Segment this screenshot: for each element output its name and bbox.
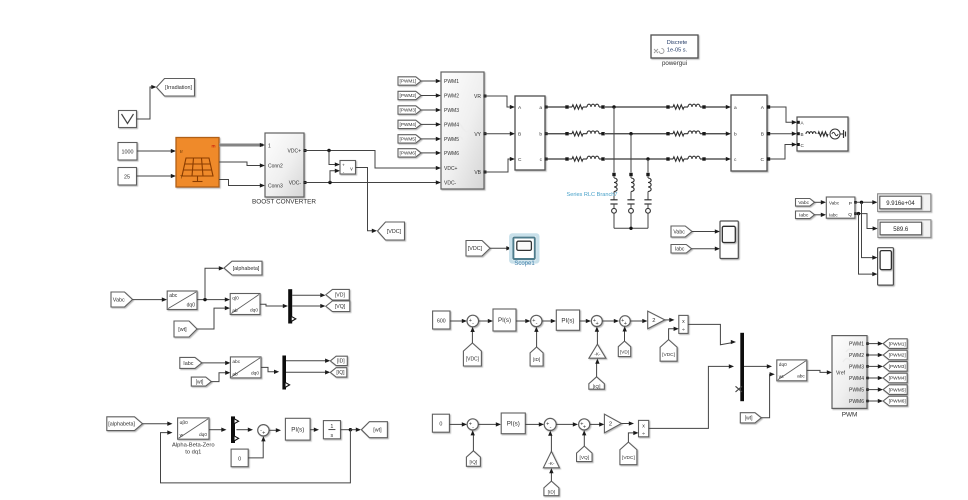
svg-text:÷: ÷ [682, 327, 685, 333]
svg-text:dq0: dq0 [251, 371, 259, 377]
svg-text:b: b [539, 132, 542, 138]
svg-text:PWM6: PWM6 [444, 151, 459, 157]
svg-text:PWM1: PWM1 [849, 342, 864, 348]
svg-text:PI(s): PI(s) [507, 421, 520, 428]
svg-text:[PWM5]: [PWM5] [889, 387, 906, 393]
svg-text:dq0: dq0 [779, 362, 787, 368]
svg-text:x: x [682, 319, 685, 325]
svg-text:-K-: -K- [594, 351, 601, 356]
svg-text:Scope1: Scope1 [514, 261, 535, 267]
svg-text:9.916e+04: 9.916e+04 [886, 201, 915, 207]
svg-text:+: + [583, 424, 586, 430]
svg-text:C: C [518, 157, 522, 163]
svg-text:1000: 1000 [122, 150, 134, 156]
svg-text:ab: ab [232, 371, 238, 377]
svg-text:÷: ÷ [642, 431, 645, 437]
svg-text:2: 2 [609, 422, 612, 428]
svg-text:1e-05 s.: 1e-05 s. [667, 48, 688, 54]
svg-text:PWM3: PWM3 [849, 364, 864, 370]
svg-text:PI(s): PI(s) [561, 317, 574, 324]
svg-text:[VDC]: [VDC] [622, 455, 635, 461]
svg-text:to dq1: to dq1 [185, 450, 201, 456]
svg-text:Iabc: Iabc [829, 213, 838, 218]
svg-text:wt: wt [779, 374, 784, 380]
svg-text:600: 600 [437, 319, 446, 325]
svg-text:[PWM2]: [PWM2] [400, 93, 417, 98]
svg-text:BOOST CONVERTER: BOOST CONVERTER [252, 199, 316, 206]
svg-text:powergui: powergui [662, 60, 687, 67]
svg-text:Iabc: Iabc [799, 213, 809, 219]
svg-text:[wt]: [wt] [178, 327, 187, 333]
svg-text:[PWM6]: [PWM6] [889, 399, 906, 405]
svg-text:-: - [550, 425, 552, 431]
svg-text:[PWM6]: [PWM6] [400, 151, 417, 156]
svg-text:[wt]: [wt] [196, 379, 204, 385]
svg-text:25: 25 [124, 175, 130, 181]
svg-text:0: 0 [238, 456, 241, 462]
svg-text:PWM: PWM [842, 412, 858, 419]
svg-text:Discrete: Discrete [667, 40, 688, 46]
svg-text:[VD]: [VD] [620, 349, 629, 354]
svg-text:b: b [734, 132, 737, 138]
svg-text:PI(s): PI(s) [291, 426, 304, 433]
svg-text:Series RLC Branch7: Series RLC Branch7 [567, 192, 618, 198]
svg-text:VDC+: VDC+ [444, 166, 458, 172]
svg-text:PWM4: PWM4 [849, 376, 864, 382]
svg-text:Alpha-Beta-Zero: Alpha-Beta-Zero [172, 443, 215, 449]
svg-text:dq0: dq0 [199, 432, 207, 438]
svg-text:Ir: Ir [180, 149, 183, 155]
svg-text:PWM5: PWM5 [444, 137, 459, 143]
svg-text:PWM4: PWM4 [444, 122, 459, 128]
svg-text:B: B [518, 132, 521, 138]
svg-text:[PWM3]: [PWM3] [889, 364, 906, 370]
svg-text:q|0: q|0 [232, 296, 239, 302]
svg-text:B: B [761, 132, 764, 138]
svg-text:[PWM1]: [PWM1] [889, 341, 906, 347]
svg-text:1: 1 [330, 424, 333, 430]
svg-text:[VQ]: [VQ] [335, 304, 346, 310]
svg-text:Iabc: Iabc [675, 247, 685, 253]
svg-text:m: m [212, 145, 216, 150]
svg-text:Vabc: Vabc [798, 200, 809, 206]
svg-text:[PWM4]: [PWM4] [400, 122, 417, 127]
svg-text:abc: abc [797, 374, 805, 380]
svg-text:abc: abc [169, 293, 178, 299]
svg-text:[ID]: [ID] [548, 490, 555, 496]
svg-text:ab: ab [232, 308, 238, 314]
svg-text:[wt]: [wt] [373, 428, 382, 434]
svg-text:[PWM3]: [PWM3] [400, 108, 417, 113]
svg-text:B: B [801, 132, 804, 137]
svg-text:PWM5: PWM5 [849, 388, 864, 394]
svg-text:[ID]: [ID] [533, 357, 540, 363]
svg-text:[VDC]: [VDC] [468, 246, 483, 252]
svg-text:a: a [539, 106, 542, 111]
svg-text:-: - [472, 321, 474, 327]
svg-text:[alphabeta]: [alphabeta] [233, 266, 260, 272]
svg-text:PWM2: PWM2 [849, 353, 864, 359]
svg-text:[IQ]: [IQ] [593, 384, 601, 390]
svg-text:Q: Q [848, 212, 852, 218]
svg-text:Vref: Vref [836, 371, 846, 377]
svg-text:Conn3: Conn3 [268, 184, 283, 190]
svg-text:Conn2: Conn2 [268, 164, 283, 170]
svg-text:[Irradiation]: [Irradiation] [165, 85, 192, 91]
svg-text:VDC-: VDC- [289, 181, 302, 187]
svg-text:PWM3: PWM3 [444, 108, 459, 114]
svg-text:-: - [536, 321, 538, 327]
svg-text:[PWM2]: [PWM2] [889, 353, 906, 359]
svg-text:[wt]: [wt] [745, 416, 753, 422]
svg-text:VDC-: VDC- [444, 181, 457, 187]
svg-text:[VD]: [VD] [335, 293, 346, 299]
svg-text:[VDC]: [VDC] [662, 352, 675, 358]
svg-text:+: + [342, 163, 345, 168]
svg-text:[PWM4]: [PWM4] [889, 376, 906, 382]
svg-text:+: + [624, 321, 627, 327]
svg-text:Vabc: Vabc [829, 201, 840, 206]
svg-text:C: C [761, 157, 765, 163]
svg-text:589.6: 589.6 [893, 227, 909, 233]
svg-text:[IQ]: [IQ] [470, 459, 478, 465]
svg-text:VB: VB [474, 170, 481, 176]
svg-text:[VDC]: [VDC] [387, 229, 402, 235]
svg-text:-K-: -K- [548, 461, 555, 466]
svg-text:PWM6: PWM6 [849, 399, 864, 405]
svg-text:[ID]: [ID] [337, 359, 345, 365]
svg-text:1: 1 [268, 144, 271, 150]
svg-text:[IQ]: [IQ] [336, 370, 345, 376]
svg-text:-: - [472, 424, 474, 430]
svg-text:Vabc: Vabc [113, 297, 125, 303]
svg-text:s: s [331, 433, 334, 439]
svg-text:+: + [262, 430, 265, 436]
svg-text:VY: VY [474, 132, 481, 138]
svg-text:w: w [180, 434, 184, 439]
svg-text:0: 0 [439, 422, 442, 428]
svg-text:x: x [642, 423, 645, 429]
svg-text:VDC+: VDC+ [288, 149, 302, 155]
svg-text:dq0: dq0 [250, 307, 258, 313]
svg-text:abc: abc [232, 359, 240, 365]
svg-text:Iabc: Iabc [183, 361, 193, 367]
svg-text:VR: VR [474, 94, 481, 100]
svg-text:Vabc: Vabc [673, 229, 685, 235]
svg-text:+: + [595, 321, 598, 327]
svg-text:T: T [180, 175, 183, 181]
svg-text:P: P [849, 201, 852, 207]
svg-text:[VDC]: [VDC] [466, 356, 480, 362]
svg-text:a: a [734, 106, 737, 111]
svg-text:αβ0: αβ0 [180, 420, 189, 426]
svg-text:PWM1: PWM1 [444, 79, 459, 85]
svg-text:[PWM5]: [PWM5] [400, 137, 417, 142]
svg-text:PI(s): PI(s) [498, 317, 511, 324]
svg-text:dq0: dq0 [187, 302, 196, 308]
svg-text:PWM2: PWM2 [444, 94, 459, 100]
svg-text:[PWM1]: [PWM1] [400, 79, 417, 84]
svg-text:[VQ]: [VQ] [579, 455, 589, 461]
svg-text:2: 2 [652, 318, 655, 324]
svg-text:[alphabeta]: [alphabeta] [108, 422, 135, 428]
